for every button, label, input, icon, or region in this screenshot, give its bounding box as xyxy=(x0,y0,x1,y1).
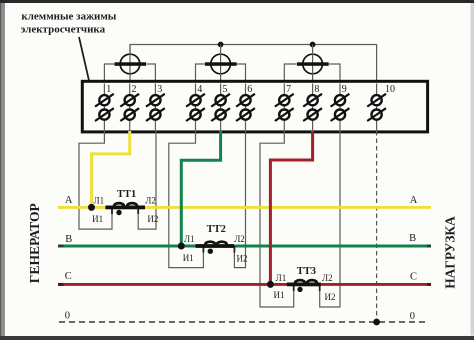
svg-text:10: 10 xyxy=(385,84,395,95)
green voltage wire t5 to phase B xyxy=(181,131,220,246)
CT TT3 polarity dot xyxy=(297,287,302,292)
svg-text:6: 6 xyxy=(247,84,252,95)
svg-text:И2: И2 xyxy=(237,253,248,263)
svg-text:7: 7 xyxy=(286,84,291,95)
svg-text:И2: И2 xyxy=(325,292,336,302)
coil 3 thick bar xyxy=(297,62,329,66)
coil circle 2 xyxy=(211,54,231,74)
wire t3 up to coil bar xyxy=(147,64,155,82)
svg-text:НАГРУЗКА: НАГРУЗКА xyxy=(444,215,459,288)
svg-text:А: А xyxy=(410,195,418,206)
svg-text:Л2: Л2 xyxy=(234,234,245,244)
wire t8 through coil 3 xyxy=(312,45,314,82)
svg-text:5: 5 xyxy=(222,84,227,95)
svg-text:2: 2 xyxy=(132,84,137,95)
meter terminal box xyxy=(82,81,427,132)
terminal 2 xyxy=(120,84,139,131)
svg-text:9: 9 xyxy=(342,84,347,95)
wire t10 dashed to neutral xyxy=(376,131,378,322)
svg-text:И1: И1 xyxy=(183,253,194,263)
CT TT1 primary bar xyxy=(105,206,145,210)
CT TT2 primary bar xyxy=(196,244,235,248)
top neutral wire of voltage coils xyxy=(130,45,377,82)
tap stub I1 of TT3 xyxy=(293,284,295,291)
frame border left xyxy=(0,3,5,336)
terminal 7 xyxy=(275,84,294,131)
phase line A xyxy=(58,206,431,209)
terminal 1 xyxy=(95,84,114,131)
dark cap right C xyxy=(427,283,431,286)
voltage coil group 2 (terminals 4-6) xyxy=(196,45,246,82)
svg-text:В: В xyxy=(65,234,72,245)
CT TT2 polarity dot xyxy=(208,249,213,254)
tap stub I1 of TT1 xyxy=(111,207,113,214)
wire t6 to I2 of TT2 xyxy=(234,131,245,268)
coil circle 3 xyxy=(303,54,323,74)
svg-text:Л2: Л2 xyxy=(145,196,156,206)
terminal 5 xyxy=(211,84,230,131)
svg-text:ТТ1: ТТ1 xyxy=(117,189,136,200)
svg-text:Л1: Л1 xyxy=(184,234,195,244)
wire t5 through coil 2 xyxy=(220,45,222,82)
terminal 9 xyxy=(331,84,350,131)
wire t7 up to coil bar xyxy=(284,64,296,82)
svg-text:0: 0 xyxy=(65,310,70,321)
CT TT1 secondary humps xyxy=(114,203,124,206)
svg-text:И2: И2 xyxy=(147,214,158,224)
wire t4 up to coil bar xyxy=(196,64,205,82)
voltage coil group 1 (terminals 1-3) xyxy=(104,45,155,82)
wire t6 up to coil bar xyxy=(237,64,246,82)
CT TT1 polarity dot xyxy=(116,210,121,215)
svg-text:А: А xyxy=(65,195,73,206)
CT TT3 primary bar xyxy=(287,283,321,287)
dark cap right B xyxy=(427,245,431,248)
svg-text:ТТ2: ТТ2 xyxy=(207,224,226,235)
svg-text:ГЕНЕРАТОР: ГЕНЕРАТОР xyxy=(28,203,43,283)
svg-text:ТТ3: ТТ3 xyxy=(297,266,316,277)
svg-text:клеммные зажимы: клеммные зажимы xyxy=(21,10,116,22)
svg-text:С: С xyxy=(410,272,417,283)
wire t4 to I1 of TT2 xyxy=(169,131,204,268)
svg-text:1: 1 xyxy=(106,84,111,95)
junction dot phase C voltage tap xyxy=(267,281,274,288)
frame border right xyxy=(471,3,474,336)
coil 1 thick bar xyxy=(114,62,146,66)
CT TT3 secondary humps xyxy=(295,280,305,283)
frame border top xyxy=(0,0,474,3)
svg-text:4: 4 xyxy=(197,84,202,95)
tap stub I2 of TT1 xyxy=(137,207,139,214)
svg-text:Л1: Л1 xyxy=(276,273,287,283)
svg-text:Л1: Л1 xyxy=(93,196,104,206)
coil 2 thick bar xyxy=(205,62,237,66)
svg-text:0: 0 xyxy=(410,311,415,322)
tap stub I2 of TT2 xyxy=(233,246,235,253)
svg-text:8: 8 xyxy=(314,84,319,95)
neutral line 0 dashed xyxy=(59,321,428,323)
dark cap left B xyxy=(58,245,64,248)
wire t2 through coil 1 xyxy=(129,45,131,82)
junction dot neutral t10 xyxy=(373,319,380,326)
junction dot phase B voltage tap xyxy=(178,243,185,250)
wire t1 to I1 of TT1 xyxy=(79,131,112,229)
svg-text:электросчетчика: электросчетчика xyxy=(21,23,106,35)
phase line B xyxy=(58,245,431,248)
phase line C xyxy=(58,283,431,286)
terminal 3 xyxy=(146,84,165,131)
frame border bottom xyxy=(0,336,474,340)
tap stub I2 of TT3 xyxy=(319,284,321,291)
wire t9 up to coil bar xyxy=(329,64,340,82)
junction dot above coil U3 xyxy=(310,42,316,48)
wire t3 to I2 of TT1 xyxy=(138,131,156,229)
wire t1 up to coil bar xyxy=(104,64,114,82)
svg-text:С: С xyxy=(65,271,72,282)
svg-text:3: 3 xyxy=(157,84,162,95)
voltage coil group 3 (terminals 7-9) xyxy=(284,45,340,82)
yellow voltage wire t2 to phase A xyxy=(92,131,130,207)
svg-text:И1: И1 xyxy=(274,290,285,300)
junction dot above coil U2 xyxy=(218,42,224,48)
terminal 8 xyxy=(303,84,322,131)
leader line to terminal box xyxy=(79,37,93,98)
junction dot phase A voltage tap xyxy=(88,204,95,211)
terminal 10 xyxy=(367,84,395,131)
svg-text:В: В xyxy=(409,233,416,244)
svg-text:Л2: Л2 xyxy=(322,273,333,283)
coil circle 1 xyxy=(120,54,140,74)
tap stub I1 of TT2 xyxy=(202,246,204,253)
terminal 4 xyxy=(186,84,205,131)
dark cap left C xyxy=(58,283,64,286)
wire t9 to I2 of TT3 xyxy=(320,131,340,307)
CT TT2 secondary humps xyxy=(205,242,215,245)
svg-text:И1: И1 xyxy=(92,214,103,224)
terminal 6 xyxy=(236,84,255,131)
red voltage wire t8 to phase C xyxy=(270,131,312,284)
wire t7 to I1 of TT3 xyxy=(260,131,294,307)
